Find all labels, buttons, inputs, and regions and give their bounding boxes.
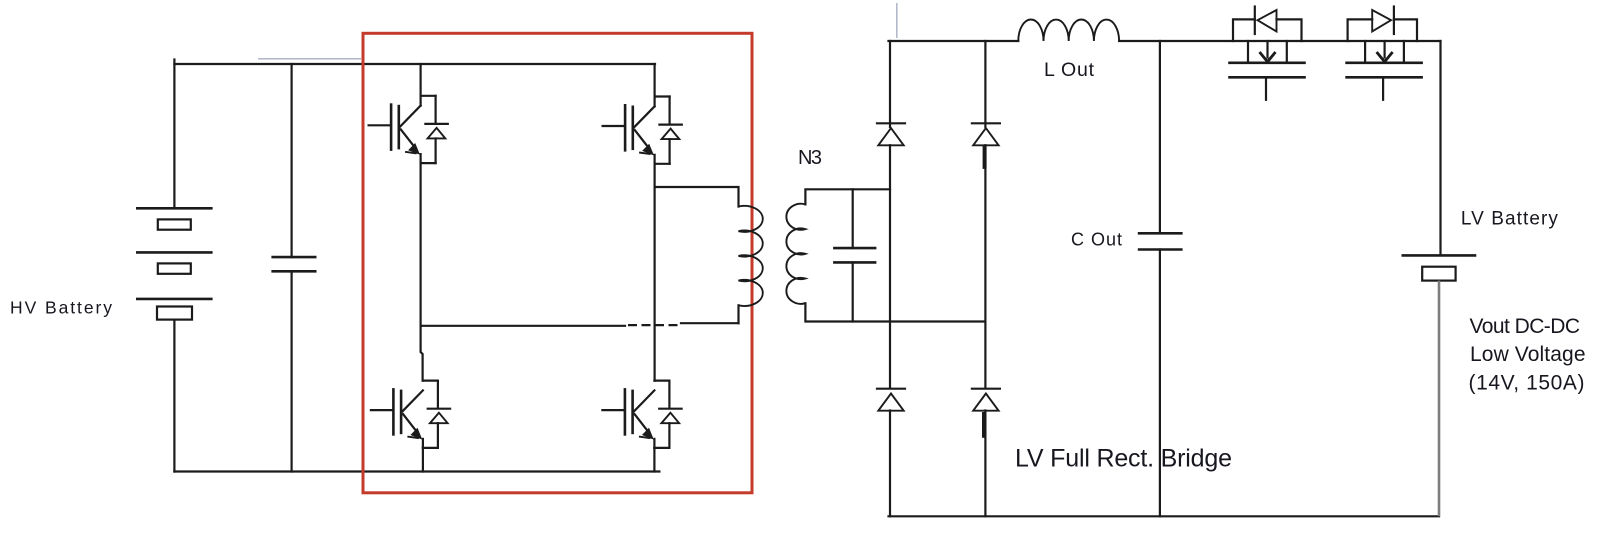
capacitor across secondary top lead xyxy=(852,189,854,248)
wire Q4 emitter to bottom rail xyxy=(653,448,655,472)
wire transformer secondary bottom lead xyxy=(805,303,985,321)
wire top rail after L Out xyxy=(1119,40,1440,42)
battery HV plate 1 xyxy=(137,207,211,210)
battery LV top plate xyxy=(1403,254,1475,257)
battery HV cell rect 1 xyxy=(158,219,191,229)
transistor Q1 (upper-left IGBT) xyxy=(369,96,448,163)
capacitor across secondary bottom lead xyxy=(852,262,854,321)
wire HV battery top lead xyxy=(173,64,175,208)
battery LV cell rect xyxy=(1422,267,1455,281)
capacitor C-link bottom lead xyxy=(291,271,293,471)
wire bottom rail HV side xyxy=(174,470,659,472)
svg-text:LV Battery: LV Battery xyxy=(1461,209,1559,230)
svg-text:C Out: C Out xyxy=(1071,230,1122,250)
battery HV cell rect 2 xyxy=(158,263,191,273)
diode M2 cathode bar xyxy=(1393,7,1395,35)
svg-text:Vout DC-DC: Vout DC-DC xyxy=(1470,315,1581,338)
inductor L Out xyxy=(1018,19,1119,41)
diode M2 triangle (points right) xyxy=(1372,10,1391,32)
faint gray artifact vertical xyxy=(896,3,898,38)
node mid rail left bridge xyxy=(421,325,625,327)
diode loop M1 left stub xyxy=(1233,19,1255,41)
diode D1 rectifier upper-left xyxy=(877,123,905,145)
svg-text:N3: N3 xyxy=(798,147,822,169)
wire rectifier right leg lower xyxy=(984,411,986,517)
wire transformer primary top connection xyxy=(655,187,739,207)
capacitor C Out bottom lead xyxy=(1159,250,1161,517)
diode M1 triangle (points left) xyxy=(1258,10,1277,32)
transformer primary winding xyxy=(739,206,763,306)
wire rectifier left leg lower xyxy=(889,411,891,517)
wire LV battery bottom lead (gray) xyxy=(1438,281,1441,517)
svg-text:HV Battery: HV Battery xyxy=(10,298,112,318)
diode D2 rectifier upper-right xyxy=(972,123,1000,145)
wire HV battery bottom lead xyxy=(173,320,175,472)
battery HV cell rect 3 xyxy=(157,307,192,320)
wire bold artifact below D4 xyxy=(982,412,986,438)
wire rectifier left leg upper xyxy=(889,41,891,127)
diode D3 rectifier lower-left xyxy=(877,389,905,411)
svg-text:Low Voltage: Low Voltage xyxy=(1470,343,1586,366)
wire right leg (Q2 emitter down to Q4) xyxy=(653,164,655,381)
transistor Q2 (upper-right IGBT) xyxy=(603,97,682,164)
diode loop M2 left stub xyxy=(1348,19,1373,41)
wire rectifier right leg upper xyxy=(984,41,986,127)
capacitor C-link plates xyxy=(273,257,316,271)
capacitor C Out top lead xyxy=(1159,41,1161,233)
wire mid rail dashed segment xyxy=(628,324,681,326)
diode loop M2 right stub xyxy=(1394,19,1417,41)
diode M1 cathode bar xyxy=(1254,7,1256,35)
wire Q1 collector tap xyxy=(420,64,422,106)
transistor M1 (left MOSFET body) xyxy=(1230,41,1305,100)
wire mid rail right solid segment xyxy=(681,322,739,324)
wire top rail HV side xyxy=(174,60,655,65)
capacitor across secondary plates xyxy=(834,248,875,262)
wire Q2 collector tap xyxy=(653,64,655,106)
capacitor C Out plates xyxy=(1139,233,1181,249)
transformer secondary winding xyxy=(786,204,805,304)
battery HV plate 2 xyxy=(137,251,211,254)
battery HV plate 3 xyxy=(137,298,211,301)
svg-text:LV Full Rect. Bridge: LV Full Rect. Bridge xyxy=(1015,445,1232,473)
svg-text:(14V, 150A): (14V, 150A) xyxy=(1469,372,1585,395)
wire rectifier top rail xyxy=(889,40,1019,42)
wire transformer secondary top lead xyxy=(805,189,890,204)
diode loop M1 right stub xyxy=(1277,19,1302,41)
wire bold artifact below D2 xyxy=(983,146,987,169)
faint gray artifact line xyxy=(258,58,361,60)
red highlight box around H-bridge xyxy=(363,33,752,493)
wire left leg upper (Q1 emitter to mid rail) xyxy=(421,163,423,381)
wire transformer primary bottom connection xyxy=(737,305,739,323)
transistor Q3 (lower-left IGBT) xyxy=(371,381,450,448)
capacitor C-link top lead xyxy=(291,64,293,257)
diode D4 rectifier lower-right xyxy=(972,389,1000,411)
wire bottom rail LV side xyxy=(889,515,1440,517)
wire Q3 emitter to bottom rail xyxy=(422,448,424,472)
svg-text:L Out: L Out xyxy=(1044,59,1095,81)
transistor Q4 (lower-right IGBT) xyxy=(602,381,681,448)
wire rectifier right leg middle xyxy=(984,145,986,388)
wire rectifier left leg middle xyxy=(889,145,891,388)
transistor M2 (right MOSFET body) xyxy=(1347,41,1422,100)
wire LV battery top lead xyxy=(1439,41,1441,255)
